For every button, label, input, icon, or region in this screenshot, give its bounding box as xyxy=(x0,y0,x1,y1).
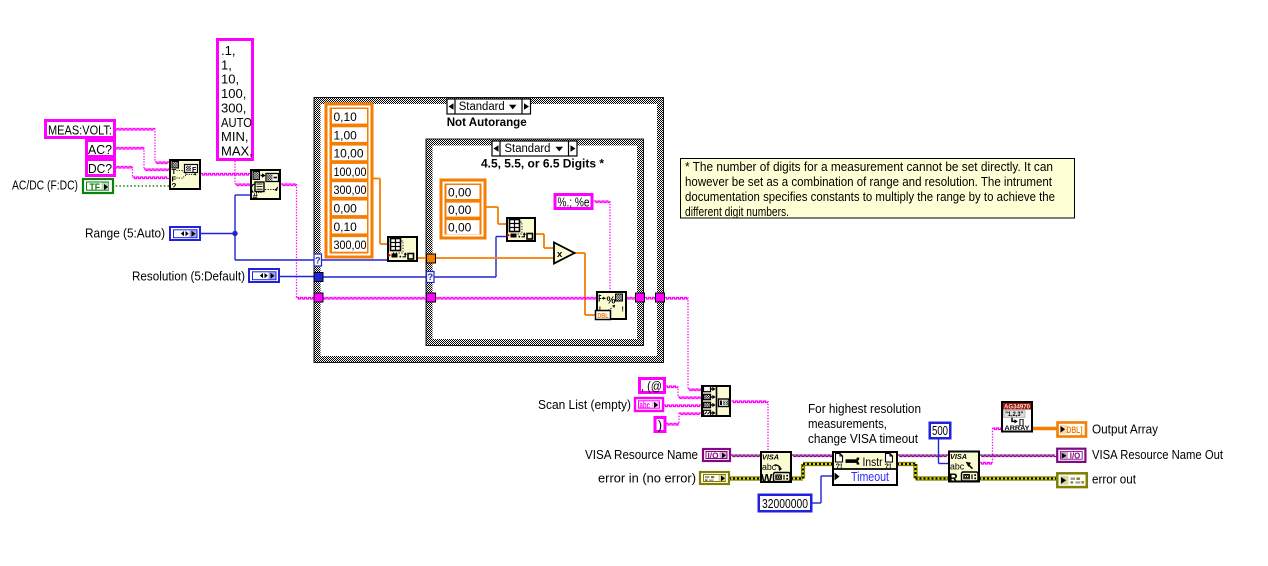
svg-text:* The number of digits for a m: * The number of digits for a measurement… xyxy=(685,160,1053,174)
svg-text:Resolution (5:Default): Resolution (5:Default) xyxy=(132,270,245,284)
svg-text:x: x xyxy=(557,249,563,260)
svg-text:?!: ?! xyxy=(885,463,892,470)
svg-text:MIN,: MIN, xyxy=(221,129,248,144)
svg-text:error out: error out xyxy=(1092,473,1136,487)
svg-text:documentation specifies consta: documentation specifies constants to mul… xyxy=(685,190,1055,204)
svg-text:abc: abc xyxy=(950,461,965,471)
svg-text:0,10: 0,10 xyxy=(334,220,358,234)
svg-text:, (@: , (@ xyxy=(641,380,662,394)
svg-text:10,: 10, xyxy=(221,72,239,87)
svg-text:32000000: 32000000 xyxy=(762,497,808,511)
svg-text:?: ? xyxy=(427,272,433,283)
svg-text:AUTO: AUTO xyxy=(221,115,252,130)
svg-text:.1,: .1, xyxy=(221,43,235,58)
svg-text:100,: 100, xyxy=(221,86,246,101)
svg-text:%.; %e: %.; %e xyxy=(558,196,590,210)
svg-text:100,00: 100,00 xyxy=(334,165,367,179)
svg-text:300,00: 300,00 xyxy=(334,183,367,197)
svg-text:#: # xyxy=(253,192,259,203)
svg-text:Not Autorange: Not Autorange xyxy=(447,115,527,129)
svg-text:0,00: 0,00 xyxy=(334,202,358,216)
svg-text:AC/DC (F:DC): AC/DC (F:DC) xyxy=(12,179,78,193)
svg-text:0,00: 0,00 xyxy=(448,221,472,235)
svg-text:10,00: 10,00 xyxy=(334,147,364,161)
svg-text:different digit numbers.: different digit numbers. xyxy=(685,205,789,219)
svg-text:?!: ?! xyxy=(836,463,843,470)
svg-text:0,10: 0,10 xyxy=(334,110,358,124)
svg-text:1,: 1, xyxy=(221,57,232,72)
svg-text:VISA: VISA xyxy=(950,452,967,461)
svg-text:Standard: Standard xyxy=(505,143,551,155)
svg-text:?: ? xyxy=(315,256,321,267)
svg-text:!: ! xyxy=(622,307,624,314)
svg-text:change VISA timeout: change VISA timeout xyxy=(808,432,918,446)
svg-text:abc: abc xyxy=(762,462,777,472)
svg-text:Range (5:Auto): Range (5:Auto) xyxy=(85,227,165,241)
svg-text:0,00: 0,00 xyxy=(448,203,472,217)
svg-text:1,00: 1,00 xyxy=(334,128,358,142)
svg-text:F: F xyxy=(192,167,197,174)
svg-text:TF: TF xyxy=(90,183,101,194)
svg-text:AC?: AC? xyxy=(88,143,112,157)
svg-text:however be set as a combinatio: however be set as a combination of range… xyxy=(685,175,1052,189)
svg-text:measurements,: measurements, xyxy=(808,417,887,431)
svg-text:%: % xyxy=(607,296,616,307)
svg-text:): ) xyxy=(658,419,662,433)
svg-text:4.5, 5.5, or 6.5 Digits *: 4.5, 5.5, or 6.5 Digits * xyxy=(481,157,604,171)
svg-text:For highest resolution: For highest resolution xyxy=(808,402,921,416)
svg-text:Output Array: Output Array xyxy=(1092,423,1159,437)
svg-text:300,: 300, xyxy=(221,100,246,115)
svg-text:DBL]: DBL] xyxy=(1067,425,1083,435)
svg-text:Timeout: Timeout xyxy=(851,470,889,484)
svg-text:error in (no error): error in (no error) xyxy=(598,472,696,486)
svg-text:I/O: I/O xyxy=(1070,451,1081,460)
svg-text:0,00: 0,00 xyxy=(448,185,472,199)
svg-text:MAX,: MAX, xyxy=(221,143,253,158)
svg-text:R: R xyxy=(949,471,958,485)
svg-text:DC?: DC? xyxy=(88,162,112,176)
svg-text:?: ? xyxy=(172,182,177,191)
svg-text:VISA Resource Name Out: VISA Resource Name Out xyxy=(1092,448,1223,462)
svg-text:VISA: VISA xyxy=(762,453,779,462)
svg-text:ARRAY: ARRAY xyxy=(1005,425,1030,432)
svg-text:VISA Resource Name: VISA Resource Name xyxy=(585,448,698,462)
svg-text:Scan List (empty): Scan List (empty) xyxy=(538,398,631,412)
svg-text:500: 500 xyxy=(932,424,948,438)
svg-text:Instr: Instr xyxy=(863,455,883,469)
svg-text:MEAS:VOLT:: MEAS:VOLT: xyxy=(48,124,112,138)
svg-text:AG34970: AG34970 xyxy=(1004,404,1030,411)
svg-text:300,00: 300,00 xyxy=(334,238,367,252)
svg-text:Standard: Standard xyxy=(459,101,505,113)
svg-text:DBL: DBL xyxy=(598,311,609,320)
svg-text:abc: abc xyxy=(640,400,651,412)
svg-text:W: W xyxy=(761,472,773,486)
svg-text:I/O: I/O xyxy=(708,451,719,461)
